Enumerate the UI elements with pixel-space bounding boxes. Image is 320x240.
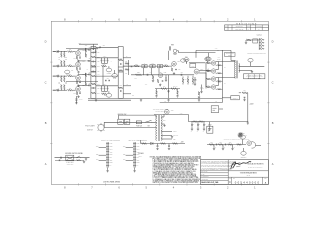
- bias filter cap 1: [157, 145, 159, 147]
- svg-text:BRT: BRT: [66, 74, 69, 76]
- ground switch contacts: [75, 156, 78, 159]
- svg-text:.022: .022: [97, 52, 100, 54]
- series grid resistor R12: [68, 51, 73, 53]
- impedance pot: [248, 58, 253, 62]
- speaker jack bus: [258, 38, 260, 50]
- tremolo output curve: [252, 142, 256, 149]
- svg-text:GZ34: GZ34: [171, 109, 174, 111]
- coupling cap: [88, 84, 90, 86]
- svg-text:.022: .022: [97, 61, 100, 63]
- mid cluster oval: [181, 59, 186, 62]
- coupling cap pair 3: [157, 65, 159, 68]
- svg-text:7025: 7025: [164, 72, 167, 74]
- wires exiting tone stack right: [123, 57, 131, 59]
- svg-text:+465V: +465V: [215, 48, 218, 50]
- svg-text:100K: 100K: [103, 64, 106, 66]
- svg-text:BRT: BRT: [137, 159, 140, 161]
- svg-text:1M: 1M: [58, 57, 60, 59]
- tremolo ground drops: [213, 145, 215, 148]
- svg-text:TREBLE: TREBLE: [107, 72, 112, 74]
- ground switch dashes: [67, 161, 74, 163]
- svg-text:68K: 68K: [65, 59, 67, 61]
- series grid resistor R16: [68, 65, 73, 67]
- svg-text:100K: 100K: [97, 57, 100, 59]
- svg-text:7025: 7025: [177, 61, 180, 63]
- svg-text:.022: .022: [97, 71, 100, 73]
- svg-text:+465V: +465V: [179, 112, 182, 114]
- svg-text:0 0 5 4 4 0 0 0 0: 0 0 5 4 4 0 0 0 0: [235, 180, 260, 184]
- tone network component: [91, 56, 95, 58]
- vibrato depth pot: [184, 58, 189, 62]
- output transformer primary winding: [233, 61, 236, 79]
- svg-text:100K: 100K: [229, 142, 232, 144]
- svg-text:GRN: GRN: [123, 146, 126, 148]
- svg-text:470K: 470K: [145, 84, 148, 86]
- heater pilot circuit wires: [104, 121, 156, 123]
- HV secondary to rectifier: [161, 116, 164, 118]
- wire between pots: [189, 62, 206, 64]
- bias feed caps mid: [194, 79, 196, 81]
- svg-text:1.5K: 1.5K: [73, 93, 76, 95]
- tremolo resistor 4: [237, 144, 242, 146]
- coupling cap pair 1: [142, 65, 144, 68]
- plate supply rail channel 2: [66, 81, 98, 83]
- power transformer core: [157, 115, 159, 141]
- output transformer core: [236, 61, 238, 79]
- grid resistors power tubes: [206, 62, 210, 64]
- grid resistor R18: [61, 77, 63, 82]
- PI output wires: [199, 70, 211, 72]
- svg-text:RED: RED: [123, 154, 126, 156]
- tremolo tube V5: [247, 141, 252, 146]
- preamp tube V2A: [76, 76, 81, 81]
- revisions table: [225, 25, 269, 31]
- svg-text:A: A: [272, 162, 274, 166]
- mixing resistor: [136, 74, 142, 76]
- heater wire: [119, 114, 156, 116]
- svg-text:GRN: GRN: [96, 146, 99, 148]
- svg-text:100K: 100K: [210, 142, 213, 144]
- svg-text:VOL: VOL: [137, 143, 140, 145]
- slope resistor ch2: [102, 93, 107, 95]
- svg-text:BRT: BRT: [110, 159, 113, 161]
- svg-text:6.3V: 6.3V: [164, 101, 166, 103]
- output transformer label box: [225, 53, 236, 57]
- plate leads top pair: [216, 61, 219, 63]
- svg-text:RED: RED: [96, 154, 99, 156]
- output transformer secondary winding: [238, 64, 241, 73]
- svg-text:6V: 6V: [110, 165, 112, 167]
- svg-text:-52V: -52V: [181, 142, 184, 144]
- power tube V9: [211, 77, 215, 81]
- svg-text:6.8K: 6.8K: [97, 74, 99, 76]
- ground switch cap: [60, 157, 62, 159]
- plate load resistor: [85, 48, 87, 52]
- svg-text:.022: .022: [97, 88, 100, 90]
- svg-text:68K: 68K: [69, 74, 71, 76]
- bias feed to PI caps: [201, 87, 203, 89]
- phase inverter tube V6: [194, 69, 199, 74]
- PI input wire: [170, 74, 194, 76]
- preamp tube V2B: [76, 86, 81, 91]
- svg-text:1.5K: 1.5K: [178, 69, 181, 71]
- svg-text:GND: GND: [137, 162, 140, 164]
- svg-text:.001: .001: [180, 72, 183, 74]
- mixer column vertical: [128, 60, 130, 75]
- svg-text:1M: 1M: [58, 81, 60, 83]
- svg-text:+170V: +170V: [78, 43, 81, 45]
- signal wire mid: [131, 74, 170, 76]
- tremolo cap 2: [224, 144, 226, 146]
- second stage components: [119, 59, 123, 61]
- tone network cap: [92, 71, 94, 73]
- tremolo resistor 1: [209, 144, 214, 146]
- svg-text:470K: 470K: [119, 57, 122, 59]
- mixer resistor 2: [164, 65, 169, 67]
- svg-text:325V: 325V: [163, 120, 166, 122]
- input jack J3: [53, 75, 56, 77]
- rectifier output wire: [154, 114, 189, 116]
- ground switch second row wire: [55, 159, 84, 161]
- screen resistors: [218, 65, 221, 66]
- coupling cap: [88, 60, 90, 62]
- speed pot: [240, 135, 245, 139]
- svg-text:D: D: [45, 40, 47, 44]
- svg-text:2.2M: 2.2M: [71, 70, 73, 72]
- svg-text:GRN 6.3V: GRN 6.3V: [173, 135, 178, 137]
- heater run: [160, 102, 223, 104]
- mid tone caps pair: [105, 79, 107, 81]
- svg-text:100K: 100K: [97, 48, 100, 50]
- wires joining tone stack to second bus: [96, 57, 118, 59]
- rev cell: [262, 177, 264, 184]
- grid resistor R15: [64, 60, 66, 65]
- svg-text:220K: 220K: [165, 64, 168, 66]
- series grid resistor R24: [68, 89, 73, 91]
- svg-text:REV: REV: [171, 44, 174, 46]
- tone network cap: [92, 61, 94, 63]
- svg-text:68K: 68K: [69, 64, 71, 66]
- footswitch RCA box: [207, 126, 213, 133]
- title block divider: [227, 160, 229, 185]
- cathode resistor + bypass cap: [76, 81, 77, 84]
- driver cathode network 2: [157, 79, 158, 82]
- border frame: [51, 21, 268, 184]
- mid hang cap: [165, 77, 167, 79]
- primary connections: [156, 115, 157, 117]
- svg-text:250K: 250K: [185, 56, 188, 58]
- filter caps: [191, 122, 193, 125]
- power transformer primary winding: [155, 116, 158, 141]
- OT center tap to B+: [231, 60, 235, 62]
- junction to B+ rail: [195, 50, 197, 52]
- treble cap cluster ch2: [101, 87, 103, 89]
- svg-text:100K: 100K: [97, 66, 100, 68]
- wire from opto: [177, 50, 179, 52]
- tube chart box: [244, 74, 265, 79]
- footswitch jack box: [211, 106, 219, 113]
- svg-text:470K: 470K: [119, 85, 122, 87]
- ground switch caps: [118, 119, 124, 124]
- feedback node vertical: [247, 93, 249, 122]
- svg-text:PILOT LIGHT: PILOT LIGHT: [85, 126, 94, 128]
- ground stub speaker: [245, 42, 247, 43]
- svg-text:+230V: +230V: [200, 68, 203, 70]
- svg-text:.022: .022: [102, 45, 105, 47]
- dropping resistors on B+ line: [193, 121, 197, 123]
- svg-text:+460V: +460V: [217, 57, 220, 59]
- PI tail resistor row: [155, 88, 180, 90]
- title band divider: [228, 170, 268, 172]
- svg-text:V7,V8-6L6GC V9-GZ34: V7,V8-6L6GC V9-GZ34: [248, 77, 262, 79]
- bias resistor 1: [142, 143, 147, 145]
- input jack J2: [53, 65, 56, 67]
- intensity pot: [241, 151, 246, 155]
- svg-text:68K: 68K: [69, 49, 71, 51]
- power transformer secondary winding: [160, 116, 163, 141]
- coupling cap: [88, 49, 90, 51]
- svg-text:C: C: [45, 80, 47, 84]
- input jack J4: [53, 89, 56, 91]
- svg-text:1M: 1M: [58, 59, 60, 61]
- series grid resistor R20: [68, 75, 73, 77]
- number band divider: [228, 176, 268, 178]
- tone network component: [91, 48, 95, 50]
- cathode resistor + bypass cap: [76, 92, 77, 95]
- input jack J1: [53, 51, 56, 53]
- power tube V7: [211, 61, 215, 65]
- tone network cap: [92, 87, 94, 89]
- svg-text:TRE: TRE: [110, 146, 113, 148]
- svg-text:VOL: VOL: [110, 143, 113, 145]
- bias cap cluster: [244, 96, 246, 98]
- svg-text:C: C: [272, 80, 274, 84]
- svg-text:100K: 100K: [97, 93, 100, 95]
- grid resistor to ground: [152, 75, 154, 79]
- svg-text:B: B: [272, 121, 274, 125]
- ground switch wire: [55, 157, 90, 159]
- tone network cap: [92, 52, 94, 54]
- ground bus junction mark: [75, 96, 77, 104]
- OT secondary wires: [239, 65, 264, 67]
- mixing resistor ch1: [134, 65, 139, 67]
- svg-text:1M: 1M: [58, 83, 60, 85]
- svg-text:6V: 6V: [137, 165, 139, 167]
- ground bus second segment: [88, 99, 131, 101]
- preamp tube V1B: [76, 62, 81, 67]
- svg-text:6.3V: 6.3V: [215, 101, 217, 103]
- resistor in speaker line: [247, 39, 251, 41]
- svg-text:220K: 220K: [135, 64, 138, 66]
- svg-text:CHECKED BY: CHECKED BY: [201, 176, 209, 178]
- plate load resistor: [85, 73, 87, 77]
- first stage output wire: [96, 46, 118, 48]
- tie point: [168, 46, 170, 50]
- PI tail to ground marks: [198, 92, 200, 96]
- svg-text:REV: REV: [264, 178, 267, 180]
- svg-text:6L6GC: 6L6GC: [217, 59, 221, 61]
- svg-text:GND: GND: [110, 162, 113, 164]
- emblem stamp: [238, 132, 244, 138]
- bias feed wire: [141, 143, 186, 145]
- svg-text:1.5K: 1.5K: [207, 84, 209, 86]
- driver tube V4: [172, 62, 177, 67]
- wire to speaker jacks: [246, 39, 259, 41]
- hum balance box: [231, 96, 240, 100]
- cathode resistor + bypass cap: [76, 67, 77, 70]
- tone network component: [91, 65, 95, 67]
- plate load resistor: [85, 54, 87, 58]
- treble cap cluster ch1: [101, 59, 103, 61]
- pilot lamp: [98, 124, 104, 130]
- svg-text:6.3V T47: 6.3V T47: [87, 130, 93, 132]
- cathode resistor + bypass cap: [76, 56, 77, 59]
- svg-text:RED: RED: [173, 138, 176, 140]
- svg-text:+420V: +420V: [249, 104, 253, 106]
- svg-text:REV: REV: [110, 151, 113, 153]
- mixer resistor a: [125, 63, 129, 65]
- tone network component: [91, 75, 95, 77]
- ground switch box: [66, 155, 74, 161]
- svg-text:INT: INT: [110, 157, 112, 159]
- svg-text:BLK: BLK: [123, 159, 125, 161]
- svg-text:100K: 100K: [219, 142, 222, 144]
- grid resistor R22: [61, 85, 63, 90]
- tone stack mid vertical: [102, 66, 104, 86]
- PI resistor network: [182, 79, 184, 83]
- plate load resistor: [85, 82, 87, 86]
- svg-text:YEL 5V: YEL 5V: [173, 131, 177, 133]
- svg-text:.047: .047: [151, 62, 154, 64]
- bias diode: [151, 142, 153, 145]
- reverb pot: [206, 57, 211, 61]
- grid resistor R23: [64, 85, 66, 90]
- svg-text:220K: 220K: [137, 72, 140, 74]
- plate leads bottom pair: [216, 77, 219, 79]
- slope resistor ch1: [102, 65, 107, 67]
- treble pot ch1: [106, 68, 112, 72]
- svg-text:68K: 68K: [65, 83, 67, 85]
- svg-text:3.3M: 3.3M: [125, 61, 127, 63]
- tremolo resistor 2: [218, 144, 223, 146]
- svg-text:DESCRIPTION: DESCRIPTION: [236, 26, 243, 28]
- mixer wire: [123, 65, 172, 67]
- svg-text:A: A: [45, 162, 47, 166]
- svg-text:1M: 1M: [185, 79, 187, 81]
- grid resistor R14: [61, 60, 63, 65]
- tone network component: [91, 83, 95, 85]
- svg-text:250K: 250K: [104, 95, 107, 97]
- svg-text:SPD: SPD: [110, 154, 113, 156]
- secondary tap labels: [161, 131, 172, 133]
- svg-text:3.3M: 3.3M: [125, 73, 127, 75]
- bias filter cap 2: [168, 145, 170, 147]
- svg-text:100K: 100K: [85, 45, 88, 47]
- PI junction from B+: [195, 53, 197, 58]
- svg-text:REV: REV: [137, 151, 140, 153]
- tail drop resistors: [156, 91, 158, 95]
- coupling cap on output wire: [99, 46, 101, 48]
- driver cathode network: [171, 68, 172, 71]
- speaker jack contacts: [260, 39, 262, 41]
- PI coupling caps: [207, 70, 209, 72]
- plate supply rail channel 1: [66, 48, 98, 50]
- power tube V10: [211, 85, 215, 89]
- pot stems: [108, 66, 110, 68]
- feedback resistor: [239, 92, 241, 94]
- svg-text:INTENSITY: INTENSITY: [241, 157, 247, 159]
- fender script logo: [231, 162, 251, 169]
- title block outline: [200, 160, 268, 185]
- coupling cap mid: [146, 74, 148, 76]
- decoupling cap top: [95, 51, 97, 53]
- mixer resistor b: [125, 69, 129, 71]
- svg-text:SYM: SYM: [225, 26, 227, 28]
- tremolo cap 1: [215, 144, 217, 146]
- rectifier tube V11: [165, 110, 170, 115]
- svg-text:68K: 68K: [65, 57, 67, 59]
- power switch: [145, 120, 151, 122]
- bass pot ch2: [106, 93, 112, 97]
- fuse: [136, 121, 141, 124]
- optocoupler: [173, 49, 176, 52]
- svg-text:+180V: +180V: [134, 78, 137, 80]
- column tick marks: [77, 20, 79, 22]
- size cell: [231, 177, 233, 184]
- svg-text:BLK: BLK: [96, 159, 98, 161]
- grid resistor R11: [64, 53, 66, 58]
- PI label box: [190, 64, 196, 68]
- svg-text:1.5K: 1.5K: [73, 58, 76, 60]
- row tick marks: [50, 61, 52, 63]
- cap row vertical drops: [143, 68, 145, 75]
- svg-text:B: B: [45, 121, 47, 125]
- svg-text:100K: 100K: [97, 84, 100, 86]
- ground bus: [88, 97, 222, 99]
- bias resistor 2: [161, 143, 166, 145]
- tremolo resistor 3: [228, 144, 233, 146]
- grid resistor R19: [64, 77, 66, 82]
- driver tube 2 V4B: [158, 73, 163, 78]
- coupling cap: [88, 74, 90, 76]
- power tube V8: [211, 69, 215, 73]
- phase inverter pot 2: [205, 57, 210, 61]
- preamp tube V1A: [76, 51, 81, 56]
- title block left rows: [200, 169, 228, 171]
- svg-text:68K: 68K: [69, 88, 71, 90]
- bass pot ch1: [112, 74, 118, 78]
- bright switch pot: [65, 70, 70, 74]
- tone network component: [91, 92, 95, 94]
- mixer cap: [131, 65, 133, 67]
- tone stack horizontal ties: [96, 75, 118, 77]
- long vertical bus mid: [168, 51, 170, 60]
- ground switch ground: [85, 158, 87, 159]
- coupling cap pair 2: [150, 65, 152, 68]
- B+ feed rail top: [79, 43, 98, 45]
- svg-text:TRE: TRE: [137, 146, 140, 148]
- B+ rail top: [196, 49, 231, 51]
- jack network box: [253, 39, 258, 43]
- screen supply bus: [221, 50, 223, 98]
- grid resistor R10: [61, 53, 63, 58]
- tone stack box caps: [91, 46, 96, 48]
- svg-text:D: D: [272, 40, 274, 44]
- svg-text:C: C: [229, 180, 231, 184]
- tone stack bus wires: [90, 47, 92, 99]
- B+ distribution wire: [189, 121, 248, 123]
- tremolo chain wire: [207, 144, 246, 146]
